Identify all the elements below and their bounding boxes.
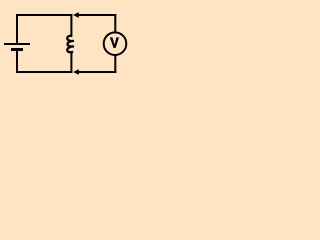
background [0,0,130,92]
battery B1 long plate (+) [4,43,30,45]
battery B1 short plate (-) [11,48,23,51]
wire bottom (battery to resistor) [16,71,72,73]
resistor R1 top lead wire [70,14,72,37]
voltmeter bottom wire [78,71,116,73]
voltmeter top wire [78,14,116,16]
voltmeter right top wire [114,14,116,33]
voltmeter right bottom wire [114,55,116,74]
voltmeter top probe arrow [73,12,79,18]
voltmeter V1 circle [104,32,127,55]
resistor R1 bottom lead wire [70,53,72,73]
battery B1 bottom lead wire [16,51,18,73]
battery B1 top lead wire [16,14,18,43]
voltmeter bottom probe arrow [73,69,79,75]
voltmeter V1 label V [110,37,119,48]
wire top (battery to resistor) [16,14,72,16]
resistor R1 zigzag body [67,36,74,54]
